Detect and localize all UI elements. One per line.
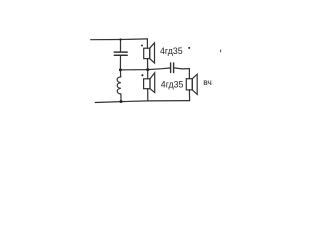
- wire: drop to speaker BA3 top pin: [188, 69, 190, 79]
- inductor L1 top lead: [119, 70, 121, 77]
- loudspeaker BA3 frame: [186, 79, 192, 90]
- node: C1 / L1 / middle rail junction: [119, 68, 122, 71]
- capacitor C2 left lead: [169, 67, 171, 69]
- stray ink dot: [188, 47, 190, 49]
- wire: speaker BA2 top pin: [147, 70, 149, 79]
- wire: speaker BA1 bottom pin: [147, 59, 149, 70]
- capacitor C1 plates: [114, 51, 127, 53]
- capacitor C1 bottom lead: [119, 56, 121, 70]
- loudspeaker BA2 cone: [150, 73, 155, 93]
- wire: top input from left terminal: [91, 38, 148, 41]
- svg-text:4гд35: 4гд35: [161, 79, 184, 89]
- wire: speaker BA2 bottom pin: [147, 89, 149, 101]
- capacitor C2 right lead / wire to BA3: [174, 68, 189, 69]
- svg-text:вч: вч: [203, 77, 212, 87]
- polarity dot of BA2: [141, 74, 143, 76]
- inductor L1 winding (3 arcs): [117, 77, 121, 94]
- stray ink tick: [220, 50, 221, 53]
- capacitor C2 plates: [170, 63, 172, 73]
- node: BA1 bottom / BA2 top junction: [146, 68, 149, 71]
- capacitor C1 top lead: [120, 40, 122, 52]
- svg-text:4гд35: 4гд35: [160, 46, 183, 56]
- loudspeaker BA1 cone: [150, 43, 155, 63]
- loudspeaker BA2 frame: [144, 79, 150, 89]
- loudspeaker BA1 frame: [144, 48, 150, 58]
- wire: middle rail: [120, 68, 169, 70]
- node: L1 bottom junction: [120, 100, 123, 103]
- wire: speaker BA3 bottom pin: [188, 90, 190, 101]
- wire: bottom return rail: [95, 101, 189, 103]
- node: top tee C1 junction: [119, 38, 121, 40]
- polarity dot of BA1: [141, 45, 143, 47]
- inductor L1 bottom lead: [120, 94, 122, 102]
- wire: drop to speaker BA1 top pin: [146, 39, 148, 48]
- loudspeaker BA3 cone: [192, 74, 197, 94]
